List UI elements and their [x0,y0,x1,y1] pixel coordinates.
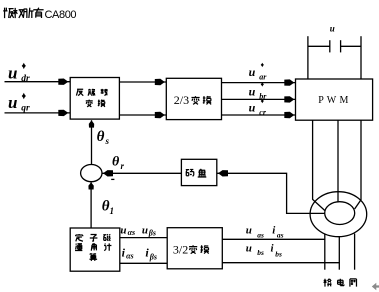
svg-text:dr: dr [21,74,30,84]
wire theta-1 U5 to summer [90,182,92,228]
capacitor C1 plate right [340,40,342,52]
wire u*ar U2 to PWM [222,82,296,84]
wire u*dr input [5,81,71,83]
svg-text:CA800: CA800 [45,9,77,21]
label grid jian-dian-wang [324,279,332,287]
svg-text:u: u [120,224,126,236]
wire capacitor left lead [308,45,330,47]
wire theta-r encoder to summer [103,172,182,174]
wire u*br U2 to PWM [222,98,296,100]
wire stator phase a to grid [324,234,326,270]
wire u-as i-as sense [222,238,325,240]
label block U4 text ma-pan [186,170,194,177]
arrowhead theta-1 into summer [88,182,93,189]
label block U1 text fan-xuan-zhuan / bian-huan [76,89,83,95]
svg-text:u: u [246,243,252,255]
motor M1 stator outer circle [310,192,367,237]
svg-text:u: u [8,64,17,83]
cursor artifact gray arrow [372,283,379,290]
arrowhead into U3 u*ar [284,79,294,85]
label copyright ban-quan-suo-you [3,8,13,18]
wire U1 to U2 top [119,81,166,83]
svg-text:bs: bs [275,250,282,259]
svg-text:bs: bs [257,248,264,257]
block U5 stator flux angle calculation [70,228,120,271]
wire rotor phase c PWM to motor [355,120,361,209]
block U4 encoder (ma-pan) [181,159,216,185]
arrowhead into U2 bottom [155,112,165,118]
arrowhead theta-s into U1 [89,120,94,127]
wire DC rail right [360,36,362,79]
svg-text:P W M: P W M [318,95,349,106]
svg-text:br: br [259,92,267,101]
arrowhead into U2 top [155,79,165,85]
arrowhead into U3 u*cr [284,112,294,118]
capacitor C1 plate left [329,40,331,52]
wire DC rail left [307,36,309,79]
wire u*qr input [5,112,71,114]
wire capacitor right lead [341,45,361,47]
svg-text:u: u [8,93,17,112]
svg-text:βs: βs [149,253,157,262]
block U3 PWM converter [296,79,373,120]
wire motor shaft to encoder corner [217,173,325,213]
arrowhead into U1 bottom [58,110,68,116]
svg-text:u: u [246,225,252,237]
wire stator phase c to grid [354,234,356,270]
label block U5 text ding-zi-ci / tong-jiao-ji / suan [76,234,83,241]
motor M1 rotor inner circle [325,202,355,225]
svg-text:as: as [277,231,284,240]
wire u-alpha-beta U5 to U6 [120,237,167,239]
svg-text:θ: θ [112,155,120,170]
svg-text:ar: ar [259,73,267,82]
svg-text:u: u [249,100,256,114]
block U2 2/3 transform [166,78,221,119]
svg-text:θ: θ [97,129,105,145]
node summing junction S1 [81,165,102,182]
svg-text:qr: qr [21,104,30,114]
arrowhead into U3 u*br [284,96,294,102]
wire u*cr U2 to PWM [222,114,296,116]
svg-text:r: r [121,161,125,171]
block U1 inverse-rotation transform (fan-xuan-zhuan bian-huan) [70,78,119,120]
svg-text:αs: αs [126,251,134,260]
svg-text:u: u [142,224,148,236]
svg-text:s: s [105,136,110,146]
wire rotor phase b PWM to motor [337,120,339,202]
wire u-bs i-bs sense [222,262,339,264]
wire U1 to U2 bottom [119,114,166,116]
block U6 3/2 transform [167,228,222,269]
arrowhead into U4 encoder [218,170,228,176]
wire stator phase b to grid [338,236,340,269]
svg-text:as: as [257,231,264,240]
label minus sign at summer [111,178,114,180]
wire i-alpha-beta U5 to U6 [120,262,167,264]
svg-text:cr: cr [259,108,267,117]
svg-text:αs: αs [128,228,136,237]
wire rotor phase a PWM to motor [313,120,325,210]
svg-text:1: 1 [110,206,115,216]
svg-text:u: u [249,65,256,79]
svg-text:u: u [249,84,256,98]
svg-text:βs: βs [148,229,156,238]
svg-text:2/3: 2/3 [174,93,189,107]
svg-text:u: u [330,23,335,33]
arrowhead into U1 top [58,79,68,85]
svg-text:3/2: 3/2 [173,242,188,256]
arrowhead theta-r into summer [103,170,113,176]
wire theta-s summer to U1 [91,120,93,164]
